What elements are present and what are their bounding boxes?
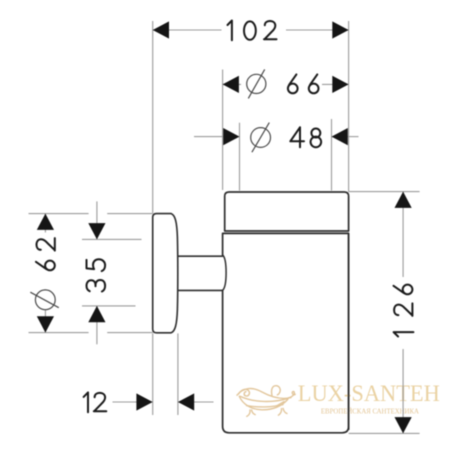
arrowhead 126 bottom	[395, 417, 412, 433]
arrowhead 102 right	[332, 21, 348, 38]
dimension line 66 right segment	[322, 83, 349, 85]
dimension line 102 left segment	[153, 29, 222, 31]
extension line 102/66 right	[348, 21, 350, 192]
connector boss on holder	[223, 255, 227, 290]
arm junction mask	[221, 257, 227, 290]
dimension line 48 left tail	[194, 136, 225, 138]
extension line 126 bottom	[349, 432, 420, 434]
dimension line 48 right tail	[347, 136, 359, 138]
holder rim ring	[225, 192, 349, 231]
svg-text:LUX-SANTEH: LUX-SANTEH	[298, 381, 440, 407]
arrowhead 62 bottom	[37, 316, 54, 332]
extension line 35 bottom	[82, 305, 136, 307]
arrowhead 12 right	[178, 393, 194, 410]
label 48	[290, 127, 321, 147]
extension line 35 top	[82, 238, 142, 240]
dimension line 102 right segment	[286, 29, 349, 31]
mounting arm top edge	[175, 255, 223, 257]
label 12	[84, 392, 107, 412]
dimension line 62 top segment	[44, 214, 46, 233]
svg-text:ЕВРОПЕЙСКАЯ САНТЕХНИКА: ЕВРОПЕЙСКАЯ САНТЕХНИКА	[321, 407, 420, 416]
extension line 48 left	[239, 123, 241, 191]
arrowhead 48 left	[223, 128, 239, 145]
dimension line 66 left segment	[223, 83, 241, 85]
diameter symbol for 62 rotated	[35, 290, 55, 310]
label 126 rotated	[394, 285, 414, 337]
extension line 102 left wall	[152, 21, 154, 213]
arrowhead 66 left	[223, 76, 239, 93]
extension line 12 left	[152, 333, 154, 415]
dimension line 126 bottom segment	[402, 349, 404, 433]
mounting arm bottom edge	[175, 289, 223, 291]
watermark bathtub logo	[237, 386, 295, 417]
extension line 62 top	[29, 213, 89, 215]
arrowhead 102 left	[153, 21, 169, 38]
dimension line 12 left tail	[113, 401, 138, 403]
extension line 12 right	[177, 333, 179, 415]
extension line 48 right	[331, 119, 333, 191]
dimension line 126 top segment	[402, 192, 404, 277]
arrowhead 35 top	[88, 223, 105, 239]
dimension line 62 bottom segment	[44, 310, 46, 333]
wall mounting plate	[153, 214, 178, 333]
label 102	[228, 21, 277, 41]
mounting arm fill	[175, 257, 222, 290]
extension line 126 top	[349, 191, 420, 193]
arrowhead 62 top	[37, 214, 54, 230]
extension line 66 left	[222, 70, 224, 191]
glass tumbler body	[223, 233, 349, 432]
arrowhead 48 right	[332, 128, 348, 145]
label 66	[288, 74, 319, 93]
dimension line 12 right tail	[193, 401, 214, 403]
arrowhead 126 top	[395, 192, 412, 208]
dimension line 35 top tail	[96, 201, 98, 239]
extension line 62 bottom	[29, 332, 89, 334]
label 62 rotated	[36, 238, 55, 270]
diameter symbol for 66	[247, 74, 266, 93]
arrowhead 12 left	[136, 393, 152, 410]
arrowhead 35 bottom	[88, 306, 105, 322]
dimension line 35 bottom tail	[96, 306, 98, 344]
arrowhead 66 right	[332, 76, 348, 93]
diameter symbol for 48	[251, 128, 271, 148]
label 35 rotated	[87, 259, 106, 291]
glass right edge over watermark	[348, 233, 350, 430]
